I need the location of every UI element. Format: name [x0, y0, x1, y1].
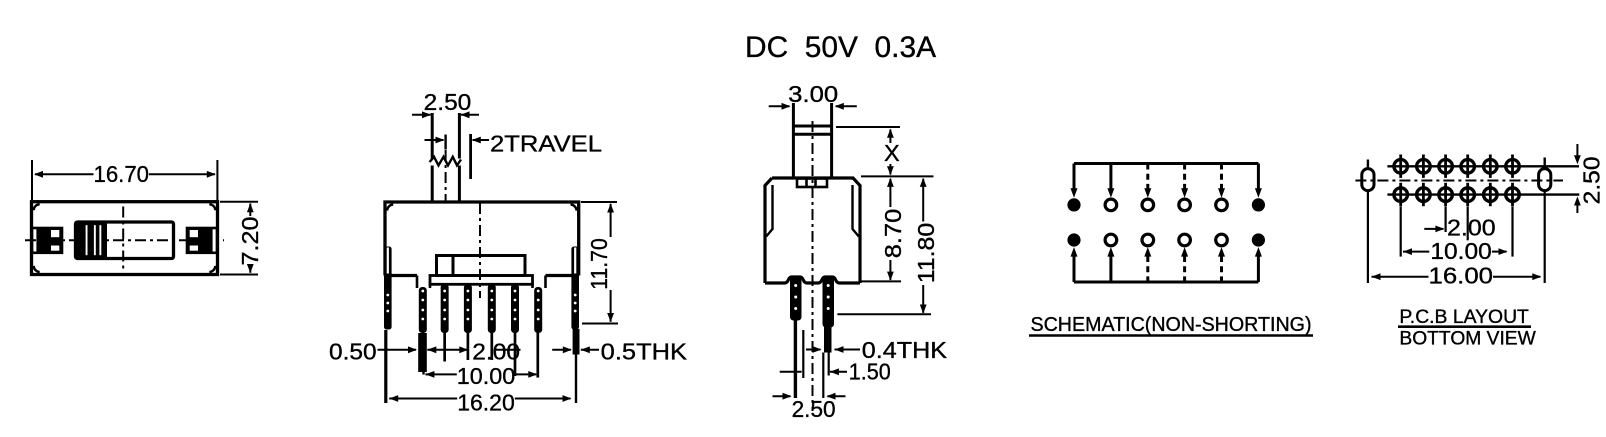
- schematic top contact wire 1: [1071, 164, 1078, 198]
- dimension 3.00 (side stem width): [769, 81, 857, 110]
- front view corner bend marks: [387, 205, 576, 211]
- pcb dimension extension lines: [1368, 191, 1545, 283]
- schematic bottom terminal 5: [1216, 234, 1228, 246]
- schematic top contact wire 3: [1144, 164, 1151, 198]
- svg-text:BOTTOM VIEW: BOTTOM VIEW: [1399, 328, 1536, 350]
- schematic top contact wire 2: [1107, 164, 1114, 198]
- dimension 16.00 (pcb): [1372, 263, 1542, 289]
- pcb pad top 4: [1461, 155, 1475, 178]
- svg-text:2.00: 2.00: [1447, 215, 1496, 241]
- front view right mounting leg: [571, 247, 579, 330]
- front view base notch edges: [417, 276, 546, 289]
- 2TRAVEL annotation: [425, 131, 603, 180]
- dimension 2.50 (side bottom): [773, 393, 846, 422]
- svg-text:X: X: [884, 140, 900, 166]
- dimension 16.20 (front overall): [389, 389, 571, 415]
- front view pin 3: [464, 284, 472, 333]
- schematic bottom contact wire 3: [1144, 247, 1151, 282]
- front view pin 1: [419, 287, 427, 333]
- front view body outline: [385, 202, 579, 276]
- side body-top extension: [861, 175, 934, 177]
- svg-text:0.50: 0.50: [329, 338, 377, 364]
- schematic top terminal 1: [1067, 198, 1080, 211]
- schematic top contact wire 5: [1218, 164, 1225, 198]
- schematic bottom terminal 2: [1105, 234, 1117, 246]
- schematic top bus wire: [1074, 162, 1258, 165]
- schematic top terminal 5: [1216, 199, 1228, 211]
- side view inner wall lines: [766, 185, 859, 237]
- svg-text:2.50: 2.50: [424, 89, 472, 115]
- side view centerline: [812, 121, 814, 411]
- top view vertical centerline: [122, 207, 124, 271]
- dimension 2.00 (pcb): [1424, 215, 1495, 241]
- schematic bottom terminal 3: [1142, 234, 1154, 246]
- svg-text:10.00: 10.00: [1430, 238, 1491, 264]
- pcb pad top 3: [1439, 155, 1453, 178]
- schematic bottom terminal 6: [1252, 233, 1265, 246]
- pcb pad bottom 2: [1417, 183, 1431, 206]
- side view stem: [792, 103, 833, 177]
- schematic bottom contact wire 6: [1255, 247, 1262, 282]
- side view rear-row pin: [823, 277, 835, 353]
- svg-text:16.20: 16.20: [457, 389, 515, 415]
- svg-text:16.00: 16.00: [1429, 263, 1494, 289]
- title rating text DC 50V 0.3A: [745, 31, 936, 64]
- pcb label line1: [1398, 306, 1531, 328]
- dimension X (side): [836, 127, 900, 175]
- front pin extension lines: [386, 329, 580, 403]
- dimension 2.50 (stem width): [412, 89, 479, 118]
- schematic bottom contact wire 2: [1107, 247, 1114, 282]
- svg-text:2.50: 2.50: [792, 396, 836, 422]
- svg-text:SCHEMATIC(NON-SHORTING): SCHEMATIC(NON-SHORTING): [1031, 314, 1312, 336]
- pcb centerline: [1355, 180, 1563, 182]
- svg-text:11.70: 11.70: [586, 238, 612, 290]
- stem break symbol: [430, 157, 461, 166]
- svg-text:0.5THK: 0.5THK: [601, 338, 688, 364]
- pcb row lines: [1387, 166, 1579, 194]
- schematic top terminal 4: [1179, 199, 1191, 211]
- top view horizontal centerline: [25, 239, 224, 241]
- pcb pad bottom 6: [1506, 183, 1520, 206]
- pcb left mounting slot: [1362, 160, 1374, 191]
- front view pin 4: [488, 284, 496, 333]
- svg-text:16.70: 16.70: [94, 161, 150, 187]
- pcb pad bottom 5: [1484, 183, 1498, 206]
- dimension 10.00 (pcb): [1403, 238, 1508, 264]
- dimension 8.70 (side): [861, 178, 906, 282]
- svg-text:DC 50V 0.3A: DC 50V 0.3A: [745, 31, 936, 64]
- dimension 1.50 (side): [780, 359, 891, 385]
- svg-text:2TRAVEL: 2TRAVEL: [490, 131, 602, 157]
- pcb right mounting slot: [1539, 158, 1551, 191]
- dimension 0.4THK (side pin thickness): [806, 337, 947, 363]
- side view front-row pin: [790, 277, 802, 321]
- dimension 0.50 (front): [329, 338, 417, 364]
- svg-text:11.80: 11.80: [913, 223, 939, 284]
- top view corner bend marks: [34, 204, 216, 272]
- dimension 16.70 (top view width): [32, 160, 217, 200]
- top view slider knob (hatched): [76, 222, 108, 259]
- schematic bottom contact wire 4: [1181, 247, 1188, 282]
- dimension 2.50 (pcb row spacing): [1574, 144, 1605, 213]
- schematic bottom terminal 4: [1179, 234, 1191, 246]
- dimension 0.5THK (front leg thickness): [552, 338, 687, 364]
- pcb pad top 1: [1394, 155, 1408, 178]
- schematic top contact wire 4: [1181, 164, 1188, 198]
- schematic top terminal 2: [1105, 199, 1117, 211]
- schematic bottom terminal 1: [1067, 233, 1080, 246]
- pcb pad bottom 3: [1439, 183, 1453, 206]
- svg-text:8.70: 8.70: [880, 209, 906, 259]
- dimension 11.80 (side): [837, 178, 939, 314]
- front view pin 5: [511, 284, 519, 333]
- svg-text:P.C.B LAYOUT: P.C.B LAYOUT: [1399, 306, 1529, 328]
- side view pin extension lines: [795, 320, 828, 398]
- pcb pad top 6: [1506, 155, 1520, 178]
- pin4 extension over text: [490, 332, 493, 360]
- pcb label line2: [1399, 328, 1536, 350]
- front view actuator stem: [432, 113, 459, 201]
- pcb pad bottom 1: [1394, 183, 1408, 206]
- front view pin 2: [441, 284, 449, 333]
- schematic top terminal 3: [1142, 199, 1154, 211]
- front view base band: [430, 276, 533, 285]
- front view inner block: [437, 256, 526, 276]
- dimension 11.70 (front height): [581, 202, 618, 324]
- svg-text:3.00: 3.00: [788, 81, 838, 107]
- schematic label: [1029, 314, 1313, 336]
- schematic bottom contact wire 5: [1218, 247, 1225, 282]
- front view pin 6: [534, 287, 542, 333]
- svg-text:10.00: 10.00: [457, 363, 515, 389]
- schematic top contact wire 6: [1255, 164, 1262, 198]
- side view body outline: [765, 178, 860, 283]
- svg-text:2.00: 2.00: [472, 339, 520, 365]
- side view collar: [797, 179, 827, 188]
- schematic bottom contact wire 1: [1071, 247, 1078, 282]
- top view slot outline: [76, 222, 174, 259]
- dimension 7.20 (top view height): [220, 202, 263, 275]
- pcb pad bottom 4: [1461, 183, 1475, 206]
- top view body outline: [32, 202, 218, 275]
- schematic top terminal 6: [1252, 198, 1265, 211]
- schematic bottom bus wire: [1074, 281, 1258, 284]
- svg-text:7.20: 7.20: [237, 217, 263, 266]
- front body centerline: [479, 203, 481, 298]
- top view right terminal: [187, 228, 217, 253]
- svg-text:1.50: 1.50: [849, 359, 891, 385]
- svg-text:2.50: 2.50: [1579, 156, 1605, 204]
- dimension 2.00 (front pin pitch): [427, 339, 520, 365]
- top view left terminal: [32, 228, 62, 253]
- pcb pad top 5: [1484, 155, 1498, 178]
- stem centerline: [445, 150, 447, 201]
- pcb pad top 2: [1417, 155, 1431, 178]
- dimension 10.00 (front): [425, 363, 537, 389]
- front view left mounting leg: [384, 247, 392, 330]
